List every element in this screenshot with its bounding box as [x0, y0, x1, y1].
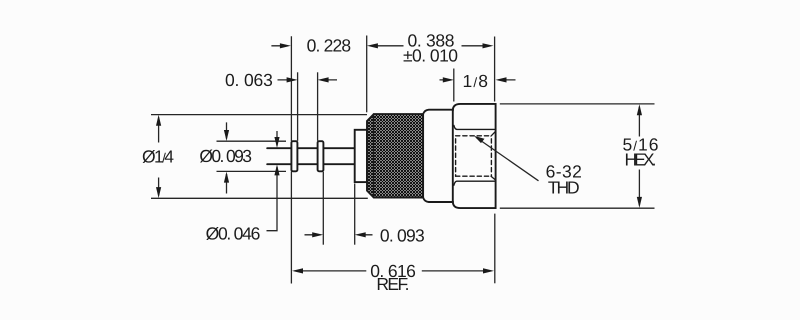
0.063 right (points left at 317.6) — [318, 77, 329, 82]
extension line: hex left (top, for 1/8) — [453, 69, 455, 102]
dim line 1/8 (outside arrows) — [440, 79, 516, 81]
0.063 left (points right at 297.6) — [287, 77, 298, 82]
dim line 0.228 (outside arrows) — [271, 45, 288, 47]
flange 2 — [318, 141, 324, 171]
0.093 bottom-right (points left at 354.7) — [355, 232, 366, 237]
dim line 0.388 — [370, 45, 491, 47]
extension lines: flange OD (for dia 0.093) — [217, 141, 287, 171]
collar — [355, 130, 367, 182]
dia 1/4 top (points up at 113.7) — [156, 115, 161, 126]
5/16 top (points up at 104.0) — [637, 104, 642, 115]
extension line: collar left (below) — [354, 184, 356, 245]
0.616 left (points left at 291.8) — [292, 268, 303, 273]
0.616 right (points right at 494.0) — [483, 268, 494, 273]
svg-text:±0. 010: ±0. 010 — [403, 46, 458, 66]
0.093 bottom-left (points right at 323.2) — [312, 232, 323, 237]
knurl body (chamfered, hatched) — [367, 114, 423, 197]
hex face lines — [454, 125, 496, 129]
dia 1/4 bottom (points down at 197.4) — [156, 187, 161, 198]
svg-text:REF.: REF. — [376, 274, 409, 294]
0.388 right (points right at 493.5) — [483, 43, 494, 48]
extension line: flange2 left — [317, 72, 319, 141]
dia 0.046 top (points down at 148.2 thru flange line) — [274, 137, 279, 148]
5/16 bottom (points down at 208.1) — [637, 197, 642, 208]
extension lines: knurl OD (left, for dia 1/4) — [151, 115, 368, 199]
dia 0.093 top (points down at 141.2) — [224, 130, 229, 141]
6-32 leader arrow (points up-left at thread line) — [474, 136, 485, 143]
hex/neck junction line — [452, 110, 454, 202]
svg-text:Ø1/4: Ø1/4 — [142, 147, 174, 167]
dim line 0.093 bottom (outside arrows) — [305, 234, 373, 236]
1/8 right (points left at 495.5) — [496, 77, 507, 82]
svg-text:0. 228: 0. 228 — [307, 35, 352, 55]
extension line: flange1 right — [297, 72, 299, 141]
extension line: hex right (top) — [494, 37, 496, 102]
dim line 5/16 (vertical, broken by text) — [638, 107, 640, 205]
extension line: flange1 left (long, used by 0.228 / 0.616) — [290, 36, 292, 283]
hex outline — [453, 104, 496, 208]
dim line dia 1/4 (vertical, broken by text) — [158, 118, 160, 196]
leader 6-32 — [477, 138, 539, 181]
extension line: hex right (bottom, for 0.616) — [494, 214, 496, 284]
0.388 left (points left at 366.7) — [367, 43, 378, 48]
svg-text:Ø0. 046: Ø0. 046 — [206, 224, 261, 244]
dim line 0.616 — [295, 270, 492, 272]
svg-text:0. 063: 0. 063 — [225, 70, 273, 90]
dia 0.093 bottom (points up at 171.4) — [224, 172, 229, 183]
hidden thread (dashed) — [456, 136, 492, 176]
pin — [267, 148, 355, 164]
dia 0.046 bottom (points up at 164.2 thru flange line) — [274, 164, 279, 175]
extension line: flange2 right (below) — [322, 172, 324, 245]
svg-text:Ø0. 093: Ø0. 093 — [199, 146, 252, 166]
svg-text:0. 093: 0. 093 — [380, 225, 425, 245]
svg-text:HEX.: HEX. — [625, 149, 657, 169]
extension lines: hex (right, for 5/16) — [500, 104, 655, 208]
1/8 left (points right at 453.8) — [443, 77, 454, 82]
knurl chamfer face line — [373, 114, 375, 197]
flange 1 — [291, 141, 297, 171]
svg-text:THD: THD — [548, 178, 580, 198]
dia 0.046 leader + arrows stems — [267, 131, 278, 231]
extension line: knurl left (top) — [366, 36, 368, 113]
dim line 0.063 (outside arrows) — [278, 79, 338, 81]
dim arrows stems dia 0.093 — [226, 122, 228, 193]
neck — [423, 110, 453, 202]
0.228 left (points right at 291) — [280, 43, 291, 48]
